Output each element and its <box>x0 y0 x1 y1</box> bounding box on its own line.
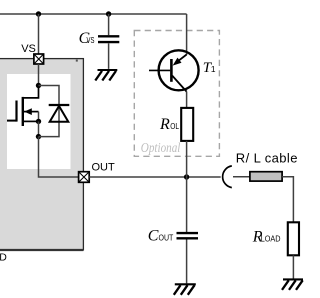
svg-text:T1: T1 <box>203 60 216 76</box>
node rail-CVS <box>106 11 111 16</box>
capacitor CVS <box>98 14 119 69</box>
svg-text:RLOAD: RLOAD <box>252 229 281 246</box>
ground COUT <box>174 284 196 295</box>
svg-text:CVS: CVS <box>79 30 95 47</box>
wire node to COUT <box>186 177 188 232</box>
svg-text:ROL: ROL <box>159 116 179 133</box>
resistor RLOAD <box>288 222 299 255</box>
svg-text:D: D <box>0 251 7 263</box>
wire VS pin to drain node <box>38 64 40 86</box>
capacitor COUT <box>177 233 199 283</box>
transistor Q1 MOSFET <box>7 97 39 126</box>
pin OUT <box>79 172 90 183</box>
svg-text:OUT: OUT <box>92 161 116 173</box>
IC corner mark <box>76 60 78 62</box>
wire arc to cable <box>233 176 250 178</box>
connector arc <box>223 166 232 188</box>
wire T1 to ROL <box>186 92 188 108</box>
IC U1 body <box>0 59 83 250</box>
wire drain stub <box>23 86 39 98</box>
wire cable to RLOAD <box>282 177 293 223</box>
svg-text:COUT: COUT <box>148 228 174 245</box>
transistor T1 <box>149 50 199 91</box>
svg-text:VS: VS <box>21 43 36 55</box>
IC inner white area <box>7 74 71 169</box>
pin VS <box>34 54 44 64</box>
ground RLOAD <box>282 279 303 290</box>
wire source down <box>38 121 40 136</box>
svg-text:R/ L cable: R/ L cable <box>236 150 298 165</box>
wire VS rail <box>0 13 187 15</box>
node OUT-COUT <box>184 174 189 179</box>
diode D1 <box>49 105 70 122</box>
wire RLOAD to ground <box>292 255 294 278</box>
node rail-VS <box>36 11 41 16</box>
wire diode branch <box>39 86 60 137</box>
wire ROL to node <box>186 141 188 177</box>
cable impedance Z1 <box>250 172 282 181</box>
node source <box>36 119 41 124</box>
wire source to OUT <box>39 137 79 177</box>
svg-text:Optional: Optional <box>141 141 181 156</box>
node drain <box>36 83 41 88</box>
resistor ROL <box>181 108 193 141</box>
wire OUT run <box>89 176 221 178</box>
ground CVS <box>95 70 117 81</box>
wire T1 top <box>186 14 188 55</box>
wire body-source <box>38 112 40 122</box>
optional dashed box <box>134 31 219 157</box>
node diode-bottom <box>36 134 41 139</box>
wire VS drop <box>38 14 40 54</box>
